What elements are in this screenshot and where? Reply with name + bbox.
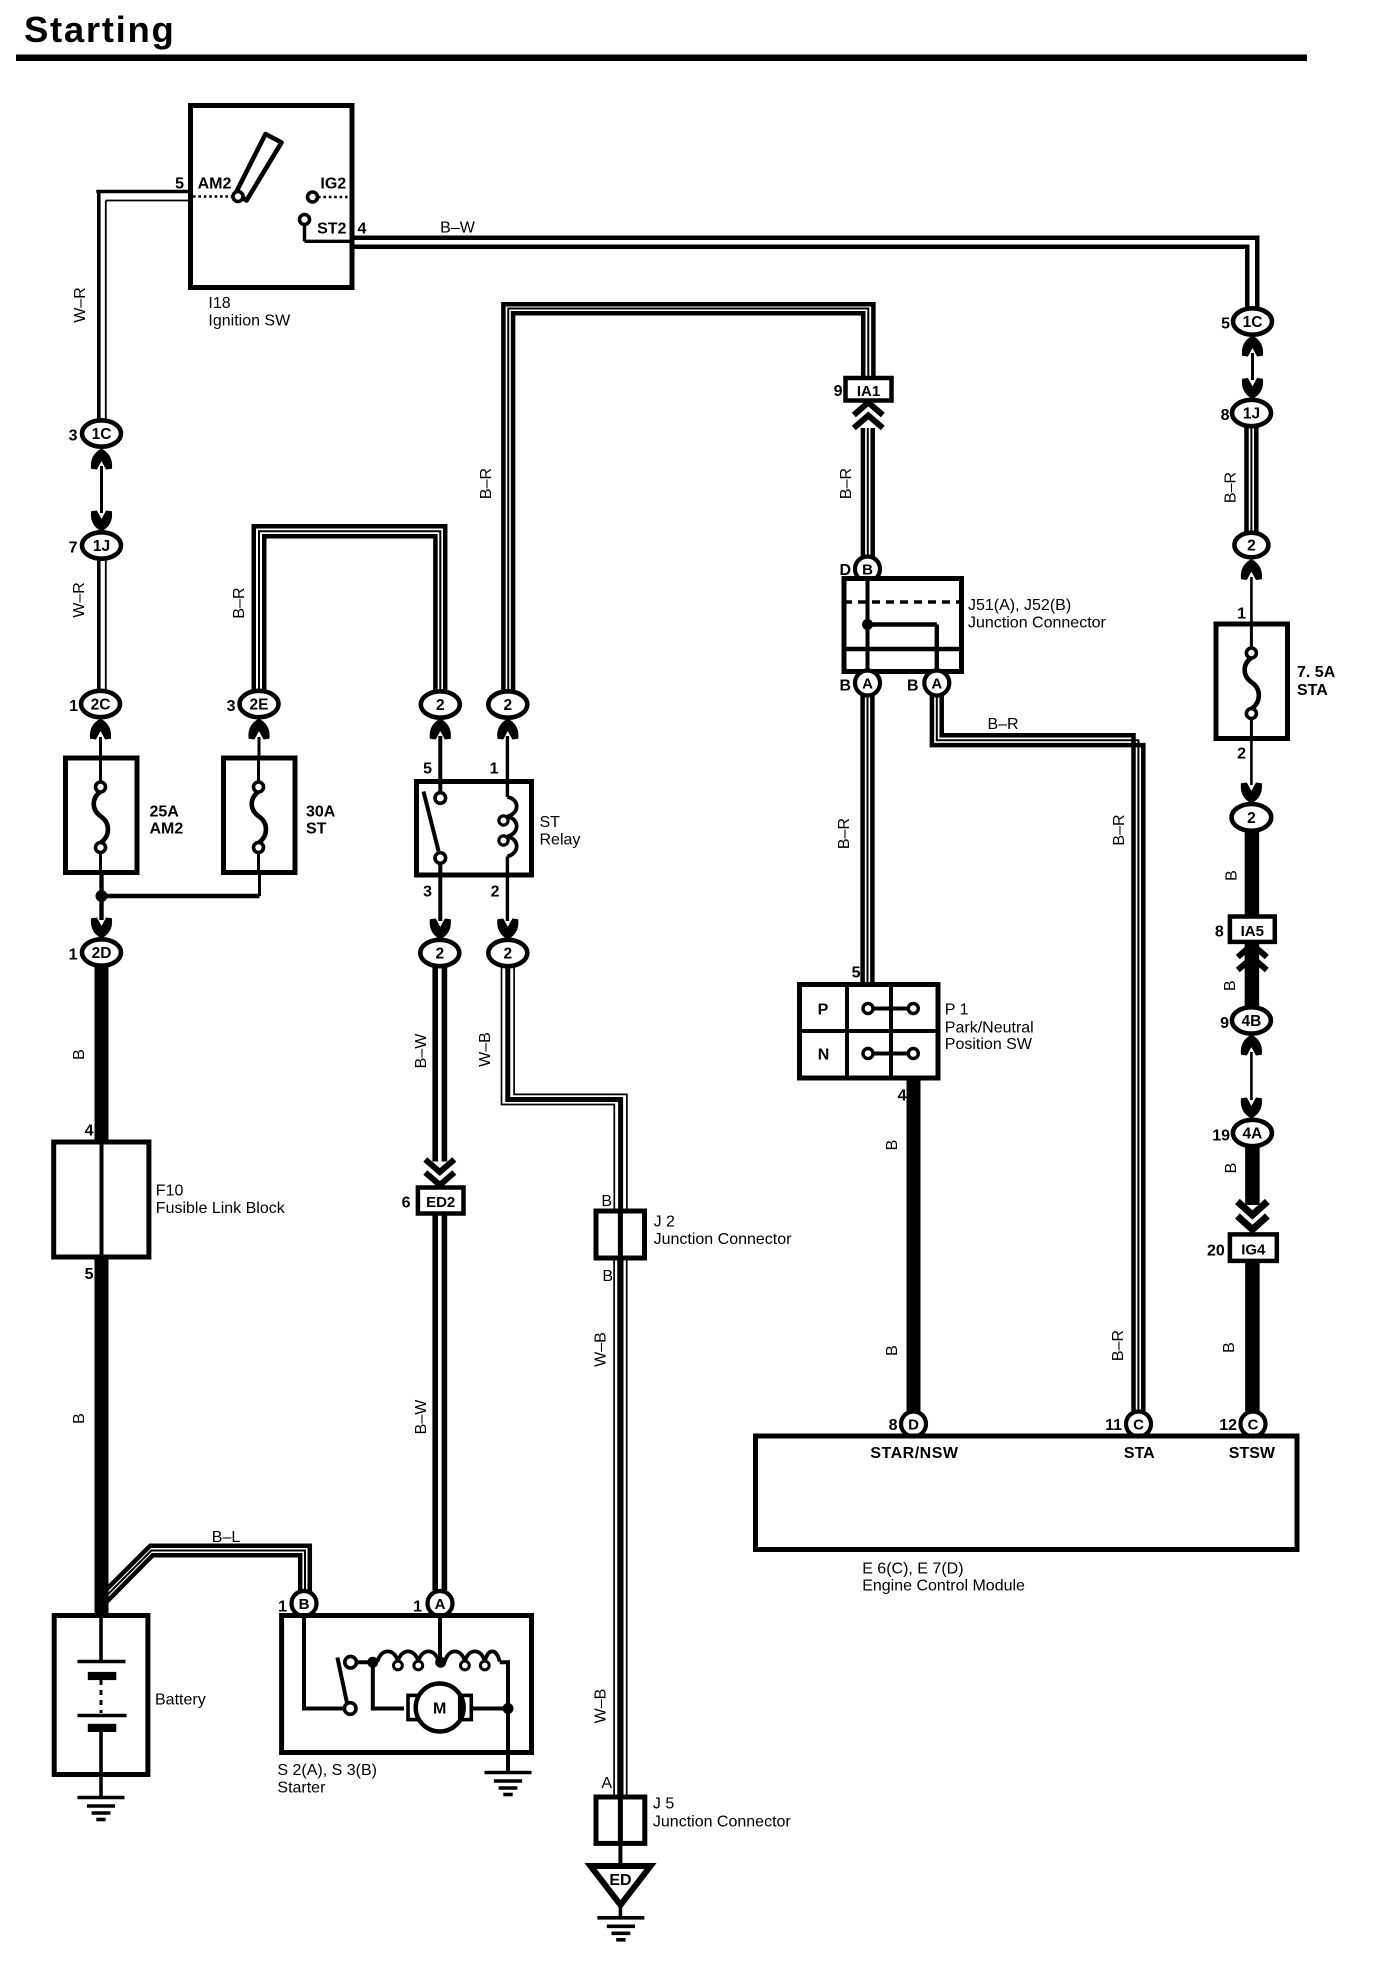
wire B (IG4 to STSW) <box>1245 1261 1260 1411</box>
svg-text:11: 11 <box>1105 1417 1122 1434</box>
svg-text:2: 2 <box>1237 746 1246 763</box>
connector 9 (4B) <box>1232 1007 1271 1033</box>
wire J5 to ED <box>618 1843 622 1864</box>
svg-text:8: 8 <box>1215 924 1224 941</box>
svg-text:C: C <box>1133 1417 1144 1434</box>
svg-text:B: B <box>1223 1163 1240 1174</box>
svg-text:STA: STA <box>1297 682 1328 699</box>
svg-text:B–W: B–W <box>413 1399 430 1435</box>
arrow chevrons from IA1 <box>854 416 883 429</box>
svg-text:B–W: B–W <box>413 1033 430 1069</box>
connector 3 (1C) <box>82 420 121 446</box>
svg-text:ST: ST <box>540 814 561 831</box>
wire node to 30A ST fuse <box>102 894 260 898</box>
svg-text:5: 5 <box>175 176 184 193</box>
svg-text:20: 20 <box>1207 1243 1225 1260</box>
starter box <box>282 1616 532 1753</box>
svg-text:B–R: B–R <box>838 468 855 499</box>
svg-text:Park/Neutral: Park/Neutral <box>945 1020 1034 1037</box>
svg-text:W–R: W–R <box>71 582 88 618</box>
svg-text:8: 8 <box>1221 407 1230 424</box>
connector 20 (IG4) <box>1230 1234 1277 1261</box>
N contact <box>873 1052 909 1056</box>
svg-text:B: B <box>884 1140 901 1151</box>
svg-text:2: 2 <box>436 697 445 714</box>
connector 7 (1J) <box>82 532 121 558</box>
svg-text:E 6(C), E 7(D): E 6(C), E 7(D) <box>862 1561 963 1578</box>
svg-text:Starting: Starting <box>24 9 176 50</box>
arrow into 2E <box>248 719 269 740</box>
wire switch to coils <box>357 1660 378 1664</box>
svg-text:M: M <box>433 1701 446 1718</box>
svg-text:1C: 1C <box>1243 314 1263 331</box>
svg-text:B–R: B–R <box>1223 472 1240 503</box>
wire W-R (1J to 2C) <box>97 559 101 691</box>
connector (2) relay pin2 bottom <box>488 940 527 966</box>
terminal ST2 <box>300 215 310 225</box>
wire B-W (ED2 to starter A) <box>432 1214 438 1591</box>
connector (2) relay pin3 bottom <box>420 940 459 966</box>
svg-text:ST2: ST2 <box>317 221 346 238</box>
connector 1 (2C) <box>81 691 120 717</box>
svg-text:B–R: B–R <box>1111 814 1128 845</box>
wire B-L (battery feed to starter terminal B) <box>106 1546 310 1591</box>
svg-text:B–W: B–W <box>440 220 476 237</box>
connector 6 (ED2) <box>418 1188 464 1214</box>
svg-text:2D: 2D <box>92 945 112 962</box>
svg-text:2: 2 <box>491 884 500 901</box>
svg-text:Starter: Starter <box>277 1780 326 1797</box>
svg-text:B: B <box>71 1049 88 1060</box>
park/neutral position switch P1 <box>800 985 939 1079</box>
connector 1 (B) starter <box>292 1591 317 1616</box>
arrow into 2D <box>99 896 103 920</box>
svg-text:N: N <box>818 1047 830 1064</box>
connector 8 (IA5) <box>1230 917 1275 942</box>
relay coil <box>506 782 509 798</box>
connector (2) <box>1234 533 1268 558</box>
svg-text:1: 1 <box>69 698 78 715</box>
wire motor to ground <box>471 1707 508 1711</box>
junction node <box>96 890 108 902</box>
battery box <box>54 1616 148 1775</box>
connector 5 (1C) right <box>1233 308 1272 334</box>
junction connector J5 <box>596 1797 645 1843</box>
wire B-R (relay pin1 up and over to IA1) <box>503 304 873 691</box>
arrow chevrons into ED2 <box>425 1160 454 1173</box>
wire W-B (relay to J2, with jog) <box>502 966 615 1211</box>
fuse 25A AM2 <box>66 758 138 873</box>
battery cells <box>99 1616 103 1661</box>
svg-text:1J: 1J <box>93 538 110 555</box>
svg-text:STA: STA <box>1124 1445 1155 1462</box>
svg-text:ST: ST <box>306 821 327 838</box>
svg-text:IA5: IA5 <box>1241 923 1264 940</box>
arrow chevrons into IG4 <box>1237 1202 1267 1216</box>
svg-text:9: 9 <box>1220 1015 1229 1032</box>
wire B-R (IA1 to junction connector) <box>861 428 866 557</box>
svg-text:ED: ED <box>609 1872 631 1889</box>
svg-text:P 1: P 1 <box>945 1002 969 1019</box>
svg-text:Engine Control Module: Engine Control Module <box>862 1578 1025 1595</box>
wire B (IA5 to 4B) <box>1245 942 1260 1007</box>
fuse 7.5A STA <box>1216 624 1288 739</box>
svg-text:Relay: Relay <box>540 832 581 849</box>
relay switch <box>438 782 442 794</box>
P contact <box>873 1007 909 1011</box>
arrow into 1C <box>91 449 112 470</box>
connector B (A) left <box>855 671 880 696</box>
svg-text:J51(A), J52(B): J51(A), J52(B) <box>968 597 1071 614</box>
svg-text:ED2: ED2 <box>426 1194 455 1211</box>
svg-text:B: B <box>1222 980 1239 991</box>
svg-text:C: C <box>1248 1417 1259 1434</box>
svg-text:4: 4 <box>358 221 367 238</box>
connector (2) relay pin1 top <box>488 691 527 717</box>
svg-text:1: 1 <box>1237 606 1246 623</box>
connector 1 (A) starter <box>428 1591 453 1616</box>
svg-text:2: 2 <box>503 946 512 963</box>
starter internal wiring from B <box>304 1616 344 1709</box>
svg-text:B–L: B–L <box>212 1529 241 1546</box>
wire from fuse to node <box>99 873 103 897</box>
wire B-R (1J to 2) <box>1244 427 1249 533</box>
arrow into 1J <box>91 511 112 532</box>
svg-text:4B: 4B <box>1241 1013 1261 1030</box>
svg-text:7: 7 <box>69 540 78 557</box>
svg-text:B: B <box>907 678 919 695</box>
svg-text:25A: 25A <box>150 804 180 821</box>
svg-text:B: B <box>884 1345 901 1356</box>
svg-text:A: A <box>931 676 942 693</box>
relay pin2 lead <box>506 875 509 921</box>
svg-text:4: 4 <box>85 1123 94 1140</box>
svg-text:W–B: W–B <box>593 1332 610 1367</box>
svg-text:STAR/NSW: STAR/NSW <box>870 1445 959 1462</box>
wire W-R vertical (ignition to 1C) <box>97 192 101 422</box>
svg-text:B: B <box>1221 1342 1238 1353</box>
svg-text:B–R: B–R <box>987 716 1018 733</box>
svg-text:1C: 1C <box>92 426 112 443</box>
starter switch <box>345 1656 357 1668</box>
svg-text:8: 8 <box>889 1417 898 1434</box>
svg-text:A: A <box>601 1775 612 1792</box>
wire B-W (ignition ST2 across top) <box>352 236 1260 241</box>
wire B-R (junction right to STA pin11) <box>932 696 1143 1412</box>
svg-text:2: 2 <box>503 697 512 714</box>
starter field coil 2 <box>445 1651 500 1661</box>
svg-text:5: 5 <box>1221 316 1230 333</box>
connector 9 (IA1) <box>846 378 892 401</box>
svg-text:B: B <box>601 1193 612 1210</box>
svg-text:B–R: B–R <box>836 818 853 849</box>
svg-text:J 5: J 5 <box>653 1796 674 1813</box>
connector B (A) right <box>924 671 949 696</box>
svg-text:W–B: W–B <box>593 1689 610 1724</box>
starter ground <box>485 1771 532 1775</box>
svg-text:3: 3 <box>423 884 432 901</box>
svg-text:2: 2 <box>1247 538 1256 555</box>
svg-text:1: 1 <box>278 1599 287 1616</box>
svg-text:W–R: W–R <box>72 287 89 323</box>
fusible link block F10 <box>54 1142 149 1257</box>
wire B-R (junction to P1 pin5) <box>860 696 865 985</box>
svg-text:1: 1 <box>413 1599 422 1616</box>
svg-text:2: 2 <box>435 946 444 963</box>
svg-text:D: D <box>908 1417 919 1434</box>
svg-text:B–R: B–R <box>1110 1330 1127 1361</box>
svg-text:Junction Connector: Junction Connector <box>653 1814 792 1831</box>
svg-text:B: B <box>602 1268 613 1285</box>
svg-text:5: 5 <box>852 965 861 982</box>
svg-text:B: B <box>1224 870 1241 881</box>
wire B-W (relay to ED2) <box>432 966 438 1162</box>
svg-text:Junction Connector: Junction Connector <box>654 1231 793 1248</box>
svg-text:P: P <box>818 1002 829 1019</box>
svg-text:3: 3 <box>69 428 78 445</box>
svg-text:5: 5 <box>85 1266 94 1283</box>
ST relay box <box>417 782 532 876</box>
svg-text:2E: 2E <box>250 697 269 714</box>
svg-text:I18: I18 <box>208 295 230 312</box>
connector (2) relay pin5 top <box>421 691 460 717</box>
svg-text:B–R: B–R <box>478 468 495 499</box>
svg-text:F10: F10 <box>156 1183 184 1200</box>
wire B (4A to IG4) <box>1245 1146 1260 1205</box>
battery ground <box>99 1775 103 1798</box>
svg-text:J 2: J 2 <box>654 1214 675 1231</box>
connector 3 (2E) <box>240 691 279 717</box>
wire W-B (J2 to J5) <box>613 1258 615 1797</box>
svg-text:Fusible Link Block: Fusible Link Block <box>156 1200 286 1217</box>
svg-text:2C: 2C <box>91 697 111 714</box>
junction connector J51/J52 box <box>844 579 962 672</box>
svg-text:5: 5 <box>423 761 432 778</box>
svg-text:B: B <box>862 562 873 579</box>
wire B (to IA5) <box>1245 831 1260 917</box>
svg-text:B: B <box>71 1413 88 1424</box>
svg-text:9: 9 <box>834 383 843 400</box>
svg-text:4A: 4A <box>1242 1126 1262 1143</box>
wire W-R from AM2 pin 5 (horizontal into box) <box>96 190 192 194</box>
relay pin3 lead <box>438 875 442 921</box>
arrow chevrons from IA5 <box>1238 958 1267 971</box>
connector 12 (C) ECM <box>1241 1412 1266 1437</box>
ignition switch I18 box <box>191 106 353 288</box>
wire (1C to 1J) <box>100 466 103 513</box>
svg-text:STSW: STSW <box>1229 1445 1276 1462</box>
svg-text:3: 3 <box>227 698 236 715</box>
wire B-R (2E up and over to ST relay pin 5) <box>254 526 445 691</box>
ignition lever <box>236 134 282 201</box>
svg-text:AM2: AM2 <box>198 176 232 193</box>
connector 19 (4A) <box>1233 1120 1272 1146</box>
connector 8 (D) ECM <box>901 1412 926 1437</box>
wire B (2D to F10) <box>95 966 109 1143</box>
svg-text:Junction Connector: Junction Connector <box>968 615 1107 632</box>
svg-text:B: B <box>839 678 851 695</box>
svg-text:IG2: IG2 <box>320 176 346 193</box>
svg-text:7. 5A: 7. 5A <box>1297 664 1336 681</box>
starter field coil 1 <box>378 1651 439 1661</box>
connector 8 (1J) right <box>1232 400 1271 426</box>
svg-text:19: 19 <box>1212 1128 1230 1145</box>
svg-text:B: B <box>299 1596 310 1613</box>
svg-text:1J: 1J <box>1243 406 1260 423</box>
arrow into 2C <box>90 719 111 740</box>
svg-text:A: A <box>435 1596 446 1613</box>
svg-text:30A: 30A <box>306 804 336 821</box>
svg-text:IG4: IG4 <box>1241 1242 1266 1259</box>
svg-text:IA1: IA1 <box>857 383 880 400</box>
ground point ED <box>591 1866 651 1905</box>
svg-text:AM2: AM2 <box>150 821 184 838</box>
svg-text:1: 1 <box>490 761 499 778</box>
svg-text:2: 2 <box>1247 810 1256 827</box>
svg-text:6: 6 <box>402 1195 411 1212</box>
svg-text:B–R: B–R <box>231 587 248 618</box>
connector 11 (C) ECM <box>1126 1412 1151 1437</box>
svg-text:S 2(A), S 3(B): S 2(A), S 3(B) <box>277 1762 377 1779</box>
svg-text:Position SW: Position SW <box>945 1036 1033 1053</box>
connector 1 (2D) <box>82 939 121 965</box>
svg-text:12: 12 <box>1219 1417 1237 1434</box>
connector (2) <box>1232 804 1272 831</box>
wire B (P1 to STAR/NSW) <box>907 1078 921 1411</box>
svg-text:A: A <box>862 676 873 693</box>
svg-text:4: 4 <box>898 1088 907 1105</box>
svg-text:W–B: W–B <box>477 1032 494 1067</box>
svg-text:Ignition SW: Ignition SW <box>208 313 291 330</box>
svg-text:1: 1 <box>69 947 78 964</box>
fuse 30A ST <box>224 758 296 873</box>
wire B (F10 to battery) <box>95 1257 109 1616</box>
svg-text:Battery: Battery <box>155 1692 206 1709</box>
connector D (B) junction <box>855 557 880 582</box>
wire A into coils <box>438 1616 442 1663</box>
ECM box <box>756 1436 1298 1550</box>
starter motor M <box>408 1695 420 1719</box>
junction connector J2 <box>596 1211 645 1258</box>
